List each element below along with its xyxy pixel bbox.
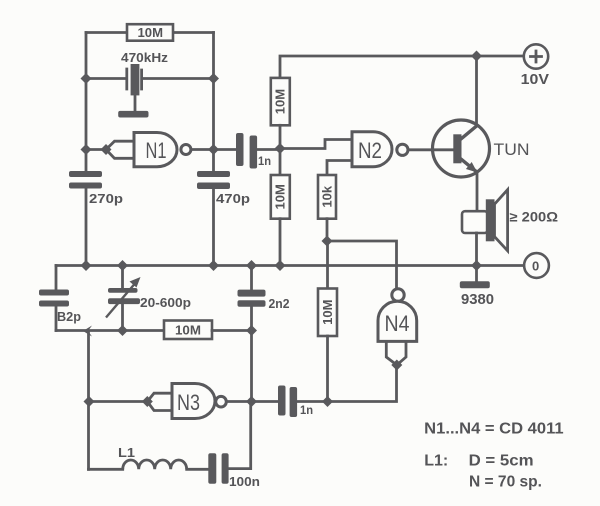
capacitor C2 470p [197,171,250,206]
label CD4011 [424,421,563,438]
svg-text:L1: L1 [118,446,135,460]
resistor R6 10M bottom [164,321,252,340]
node junction bus-trimmer [117,260,128,271]
power terminal +10V [521,44,549,88]
svg-text:470p: 470p [216,191,250,206]
svg-text:1n: 1n [258,156,271,168]
wire speaker to bus [475,233,478,266]
capacitor C8 100n [208,402,260,490]
svg-text:10k: 10k [320,185,335,207]
svg-text:L1:: L1: [424,452,448,469]
node junction crystal-left [81,73,92,84]
wire N3 input row [89,393,172,410]
resistor R5 10M right [318,289,337,402]
svg-text:10M: 10M [138,25,164,40]
svg-text:≥ 200Ω: ≥ 200Ω [510,210,559,225]
capacitor C1 270p [69,171,123,206]
svg-text:9380: 9380 [461,291,494,308]
svg-text:D = 5cm: D = 5cm [469,452,534,469]
op-amp U3 NAND gate N3 [172,384,226,419]
label 9380 [461,291,494,308]
node junction N3-input fork [142,396,153,407]
wire N1 output [191,148,214,151]
resistor R1 10M top [86,24,214,41]
wire 10M right vertical [326,241,329,289]
node junction trimmer-bottom [117,325,128,336]
node junction bus-2n2 [246,260,257,271]
wire left lower vertical [87,331,90,469]
wire 0V bus [56,264,523,267]
transistor Q1 TUN [433,120,530,177]
svg-text:470kHz: 470kHz [121,50,169,65]
capacitor C4 B2p [39,290,81,331]
resistor R4 10k [318,175,336,241]
capacitor C6 2n2 [238,266,290,331]
svg-text:N4: N4 [385,311,410,336]
node junction bus-270p [81,260,92,271]
node junction left-N3row [84,396,95,407]
node junction N1-out [208,144,219,155]
wire feedback to N4 output [327,241,397,289]
wire N2 upper input [280,140,352,149]
capacitor C7 1n bottom [278,386,313,418]
capacitor C5 trimmer 20-600p [106,266,191,331]
svg-text:100n: 100n [229,474,260,489]
inductor L1 [89,446,209,469]
svg-text:N1...N4 = CD 4011: N1...N4 = CD 4011 [424,421,563,438]
svg-text:270p: 270p [89,191,123,206]
svg-text:10M: 10M [273,184,288,209]
resistor R3 10M vertical lower [271,175,290,266]
node junction N3-out [246,396,257,407]
wire top rail [280,56,523,78]
svg-text:1n: 1n [300,405,313,417]
node junction N1-input fork [101,144,112,155]
svg-text:0: 0 [532,259,539,274]
speaker LS1 [462,190,558,251]
svg-text:N2: N2 [358,138,382,163]
crystal X1 470kHz [118,50,168,118]
wire 1n to N4 input [297,365,396,402]
node junction N4-input [391,360,402,371]
wire left vertical [85,33,88,266]
svg-text:B2p: B2p [57,309,81,324]
node junction 2n2-bottom [246,325,257,336]
svg-text:10M: 10M [320,300,335,325]
wire bus to B2p [55,266,58,290]
wire collector to rail [475,56,478,126]
ground [460,266,490,289]
svg-text:10M: 10M [175,323,201,338]
node junction 10M-N3row [322,396,333,407]
label L1 spec [424,452,533,469]
node junction mid-1n [275,143,286,154]
svg-text:TUN: TUN [494,141,530,159]
op-amp U4 NAND gate N4 [378,289,417,365]
node junction crystal-right [208,73,219,84]
wire N3 output [226,400,278,403]
label L1 turns [469,474,542,491]
op-amp U2 NAND gate N2 [352,132,408,167]
node blob B2p-junction [83,326,92,337]
svg-text:2n2: 2n2 [269,296,290,311]
node junction bus-speaker [471,260,482,271]
node junction 10k-bottom [322,236,333,247]
svg-text:10M: 10M [273,89,288,114]
wire crystal row [86,77,214,80]
svg-text:10V: 10V [521,71,549,88]
wire emitter to speaker [476,173,479,211]
svg-text:N = 70 sp.: N = 70 sp. [469,474,542,491]
op-amp U1 NAND gate N1 [134,133,191,167]
node junction rail-collector [471,51,482,62]
wire 2n2 to N3 out [250,331,253,402]
wire N1 input [86,141,134,158]
node junction bus-10M [275,260,286,271]
node junction left-N1row [81,144,92,155]
svg-text:20-600p: 20-600p [140,295,191,310]
resistor R2 10M vertical top [271,78,290,175]
node junction bus-470p [208,260,219,271]
wire N2 lower input [327,161,352,176]
capacitor C3 1n [214,133,281,169]
svg-text:N1: N1 [146,138,167,163]
wire row 330 left [56,329,164,332]
wire N2 output [408,148,454,151]
svg-text:N3: N3 [177,390,200,415]
wire right vertical [212,33,215,266]
terminal 0 [524,253,549,278]
